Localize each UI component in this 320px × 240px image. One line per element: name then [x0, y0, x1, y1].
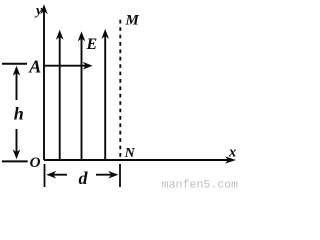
svg-text:E: E: [86, 36, 98, 53]
svg-text:M: M: [125, 13, 140, 29]
tick at A level: [2, 63, 27, 65]
field line E2 arrowhead: [78, 31, 86, 41]
svg-text:y: y: [34, 3, 43, 18]
x-axis: [44, 159, 233, 161]
horizontal arrow at A: [44, 65, 89, 67]
d dimension right arrowhead: [108, 171, 118, 179]
y-axis: [43, 8, 45, 160]
d dimension left bar: [44, 164, 46, 187]
h dimension down arrowhead: [13, 149, 21, 159]
field line E1: [59, 33, 61, 160]
y-axis arrowhead: [40, 4, 48, 14]
h dimension down arrow shaft: [16, 129, 18, 154]
d dimension right arrow shaft: [96, 174, 114, 176]
field line E2: [81, 35, 83, 160]
field line E3 arrowhead: [101, 29, 109, 39]
svg-text:N: N: [124, 146, 136, 161]
svg-text:A: A: [28, 57, 41, 77]
field line E3: [104, 32, 106, 160]
dashed line MN: [119, 20, 121, 160]
svg-text:h: h: [14, 104, 24, 124]
tick at O level left: [2, 160, 28, 162]
d dimension left arrowhead: [46, 171, 56, 179]
d dimension left arrow shaft: [50, 174, 67, 176]
d dimension right bar: [119, 164, 121, 187]
field line E1 arrowhead: [56, 30, 64, 40]
h dimension up arrow shaft: [16, 69, 18, 100]
svg-text:manfen5.com: manfen5.com: [162, 179, 238, 190]
h dimension up arrowhead: [13, 66, 21, 76]
x-axis arrowhead: [225, 156, 236, 163]
svg-text:x: x: [228, 144, 236, 160]
svg-text:d: d: [79, 168, 89, 188]
horizontal arrow at A head: [83, 62, 93, 70]
svg-text:O: O: [30, 155, 41, 171]
